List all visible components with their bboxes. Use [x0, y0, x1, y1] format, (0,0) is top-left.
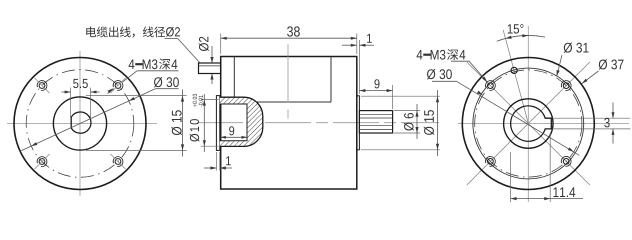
right view M3 hole top-left [485, 81, 495, 91]
dimension 15 degrees [497, 24, 545, 41]
left view shaft bore with flat (5.5) [71, 112, 91, 133]
right view M3 hole top-right [561, 81, 571, 91]
dimension 9 (hub bore depth) [220, 126, 247, 138]
left view hole centerline upper-right [110, 78, 125, 93]
dimension 3 (keyway height) [552, 103, 630, 144]
dimension D15 (hub/plate dia) [86, 90, 187, 157]
dimension 1 (rear plate, top right) [342, 34, 374, 94]
right view horizontal centerline [458, 123, 629, 125]
left view horizontal centerline [7, 123, 157, 125]
dimension 11.4 (bore to keyway) [511, 133, 583, 202]
cavity vertical centerline [287, 44, 289, 119]
middle view horizontal centerline [197, 122, 439, 124]
left view hole centerline upper-left [34, 78, 49, 93]
mounting plate (1mm) [216, 96, 219, 151]
leader for 4-M3 (left view) [108, 71, 179, 94]
15 degree index hole [511, 67, 517, 73]
label 4-M3 depth 4 (right view) [417, 49, 466, 60]
dimension D2 (cable) [199, 37, 214, 84]
left view M3 hole top-left [37, 81, 47, 91]
left view outer flange circle [14, 58, 146, 190]
left view M3 hole bottom-right [113, 157, 123, 167]
cable callout text [86, 26, 180, 37]
dimension D30 leader (left view, diagonal through center) [21, 89, 178, 151]
dimension D6 (shaft dia) [394, 104, 420, 139]
left view bolt circle (dashed, D30) [26, 70, 134, 178]
hub cross-section hatched walls [220, 97, 263, 146]
dimension D15 (rear boss dia) [361, 90, 440, 156]
right view bore circle with keyway [511, 106, 552, 141]
rear boss plate (right face) [357, 96, 360, 150]
left view M3 hole top-right [113, 81, 123, 91]
left view M3 hole bottom-left [37, 157, 47, 167]
dimension D10 +0.03/-0.01 (hub bore dia) [190, 94, 219, 152]
label D37 with leader [582, 59, 624, 83]
right view M3 hole bottom-right [561, 156, 571, 166]
right view hole diagonal centerlines [467, 62, 590, 185]
right view M3 hole bottom-left [485, 156, 495, 166]
dimension D30 leader (right view diagonal) [432, 81, 579, 155]
leader for 4-M3 (right view) [451, 61, 487, 82]
label D30 (left view) [154, 77, 179, 87]
dimension 38 (body length) [221, 26, 357, 54]
right view outer flange circle (D37) [462, 58, 594, 190]
left view hole centerline lower-left [34, 154, 49, 169]
right view hub circle [504, 99, 553, 148]
dimension 9 (shaft length) [359, 79, 392, 109]
label D30 (right view) [427, 69, 452, 79]
left view hole centerline lower-right [110, 154, 125, 169]
right view vertical centerline [527, 26, 529, 202]
left view hub circle [53, 97, 106, 150]
dimension 5.5 (bore width) [62, 79, 100, 120]
right view bolt circle (dashed, D30) [475, 70, 582, 177]
right view body circle (D31) [473, 68, 584, 179]
cable stub [199, 63, 221, 74]
cable leader line [165, 39, 201, 64]
label D31 with leader [557, 42, 589, 76]
left view vertical centerline [79, 51, 81, 196]
output shaft [359, 111, 392, 133]
inner cavity lines [234, 57, 331, 103]
body rectangle [221, 57, 357, 190]
label 4-M3 depth 4 (left view) [129, 58, 178, 69]
dimension 1 (plate thickness, bottom) [204, 152, 232, 171]
15 degree radial line [503, 30, 528, 124]
